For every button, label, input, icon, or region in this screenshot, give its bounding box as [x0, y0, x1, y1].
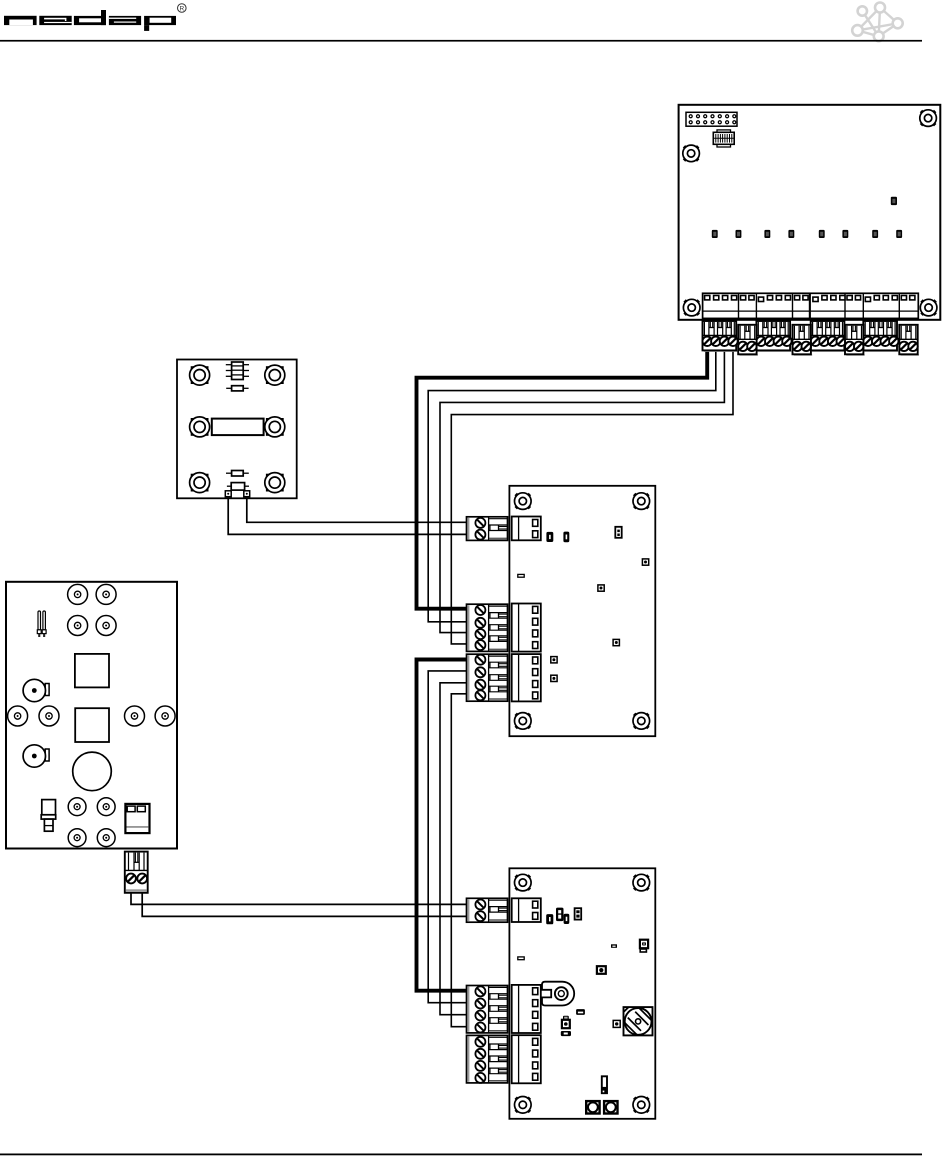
- svg-text:R: R: [179, 5, 184, 12]
